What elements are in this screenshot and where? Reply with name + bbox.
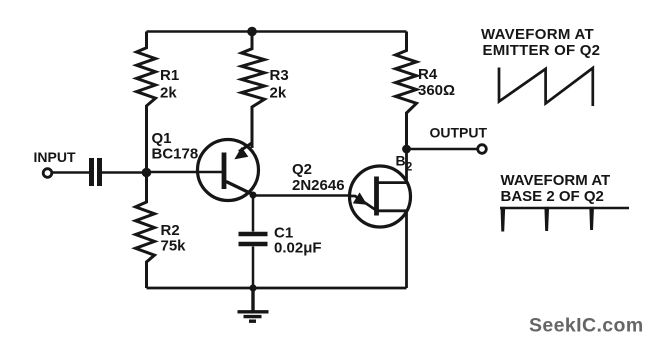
svg-text:75k: 75k [161, 238, 187, 255]
wire input junction to Q1 base [147, 171, 225, 174]
transistor Q2 [350, 166, 411, 227]
svg-text:360Ω: 360Ω [418, 82, 455, 99]
waveform sawtooth at emitter of Q2 [499, 68, 593, 107]
node Q1 collector junction [250, 192, 257, 199]
node top rail junction [247, 27, 257, 37]
wire coupling capacitor to input junction [102, 171, 147, 174]
wire bottom rail [147, 287, 407, 290]
svg-text:OUTPUT: OUTPUT [430, 125, 488, 141]
wire C1 to bottom rail [252, 247, 255, 289]
svg-text:2k: 2k [270, 85, 287, 102]
wire Q2 B2 lead to output junction [378, 149, 407, 183]
ground [238, 288, 269, 321]
resistor R1 [137, 32, 156, 173]
wire Q1 collector junction to Q2 emitter [253, 194, 350, 197]
svg-text:WAVEFORM AT: WAVEFORM AT [501, 172, 611, 189]
svg-text:0.02μF: 0.02μF [274, 240, 322, 257]
svg-text:BASE 2 OF Q2: BASE 2 OF Q2 [501, 188, 604, 205]
svg-text:BC178: BC178 [152, 146, 199, 163]
resistor R3 [242, 32, 265, 149]
wire input terminal to coupling capacitor [52, 171, 89, 174]
svg-text:INPUT: INPUT [34, 149, 76, 165]
svg-text:R1: R1 [160, 67, 179, 84]
capacitor C1 [239, 234, 268, 244]
svg-text:Q1: Q1 [152, 130, 172, 147]
input terminal [43, 169, 52, 178]
transistor Q1 [198, 140, 259, 201]
svg-text:2N2646: 2N2646 [292, 177, 345, 194]
resistor R2 [136, 172, 155, 288]
svg-text:SeekIC.com: SeekIC.com [529, 315, 644, 337]
svg-text:EMITTER OF Q2: EMITTER OF Q2 [483, 42, 601, 59]
svg-text:Q2: Q2 [292, 161, 312, 178]
node ground junction [249, 284, 256, 291]
resistor R4 [396, 32, 417, 150]
svg-text:R2: R2 [161, 222, 180, 239]
wire output [407, 148, 478, 151]
capacitor input coupling [92, 158, 100, 186]
output terminal [478, 145, 487, 154]
node B2 output junction [402, 145, 411, 154]
svg-text:R3: R3 [270, 67, 289, 84]
svg-text:2k: 2k [160, 85, 177, 102]
wire Q1 collector junction down to C1 [252, 195, 255, 232]
svg-text:R4: R4 [418, 66, 438, 83]
node input junction [142, 168, 152, 178]
wire Q2 B1 lead to bottom rail [378, 211, 407, 288]
svg-text:WAVEFORM AT: WAVEFORM AT [481, 26, 594, 43]
wire top rail [147, 30, 407, 33]
waveform spikes at base 2 of Q2 [500, 207, 629, 232]
